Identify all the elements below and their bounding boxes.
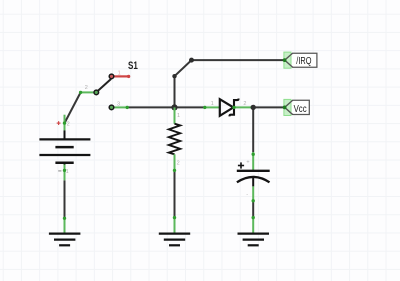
capacitor C1 top plate <box>237 170 270 172</box>
wire capacitor - to right ground <box>252 201 254 216</box>
right ground symbol <box>238 234 270 246</box>
svg-text:1: 1 <box>118 71 121 77</box>
svg-text:3: 3 <box>117 101 120 107</box>
battery BT1 plus mark (red) <box>57 121 61 125</box>
wire battery+ to switch pin 2 (diagonal) <box>65 92 81 123</box>
port Vcc connection dot <box>283 105 287 109</box>
capacitor C1 plus mark <box>238 162 244 168</box>
wire switch pin 3 to Vcc rail (horizontal, through junctions) <box>127 106 205 108</box>
wire Vcc rail junction down to capacitor + <box>252 107 254 152</box>
diode D1 triangle (anode) <box>220 99 234 116</box>
junction node A (main rail / resistor / IRQ branch) <box>171 104 177 110</box>
svg-text:+: + <box>246 160 249 166</box>
junction node B (Vcc rail / capacitor branch) <box>251 105 256 110</box>
switch S1 pin 2 (green) with terminal circle <box>79 91 94 94</box>
diode D1 zener cathode bar with hooks <box>230 99 239 117</box>
switch S1 lever <box>97 79 111 92</box>
port /IRQ flag body <box>285 53 317 67</box>
wire junction to /IRQ port <box>175 60 284 107</box>
resistor R1 pin 2 (green, bottom) <box>173 154 176 172</box>
svg-text:2: 2 <box>67 121 70 127</box>
port /IRQ green pin highlight square <box>284 52 291 68</box>
port /IRQ outline redraw <box>285 53 293 67</box>
svg-text:1: 1 <box>211 101 214 107</box>
capacitor C1 curved bottom plate <box>237 177 270 182</box>
capacitor C1 pin + (green, top) <box>252 152 255 171</box>
switch S1 pin 1 terminal circle <box>109 74 114 79</box>
middle ground symbol <box>159 234 190 246</box>
svg-text:-: - <box>246 192 248 198</box>
resistor R1 zigzag body <box>169 124 180 155</box>
wire resistor bottom to middle ground <box>174 171 176 217</box>
switch S1 pin 3 terminal circle <box>109 105 114 110</box>
right ground pin (green) <box>252 216 255 234</box>
svg-text:1: 1 <box>66 169 69 175</box>
wire battery- to left ground <box>64 180 66 217</box>
svg-text:S1: S1 <box>128 60 138 72</box>
svg-text:2: 2 <box>243 101 246 107</box>
port /IRQ connection dot <box>283 58 287 62</box>
battery BT1 pin 1 (green, bottom) <box>63 163 66 181</box>
battery BT1 pin 2 (green, top) <box>63 115 66 139</box>
wire corner vertex above junction <box>172 74 176 78</box>
switch S1 pin 3 (green) <box>114 106 129 109</box>
battery BT1 minus mark <box>58 170 61 172</box>
capacitor C1 pin - (green, bottom) <box>252 186 255 202</box>
capacitor C1 lead below arc <box>252 178 254 187</box>
left ground symbol <box>49 234 81 246</box>
port Vcc green pin highlight square <box>284 99 291 115</box>
left ground pin (green) <box>63 217 66 234</box>
svg-text:Vcc: Vcc <box>294 104 307 115</box>
battery BT1 plates <box>39 139 90 162</box>
svg-text:1: 1 <box>177 113 180 119</box>
middle ground pin (green) <box>173 216 176 234</box>
svg-text:2: 2 <box>85 85 88 91</box>
switch S1 pin 2 terminal circle <box>94 90 99 95</box>
svg-text:2: 2 <box>177 160 180 166</box>
switch S1 pin 1 stub (red, unconnected) <box>113 75 130 78</box>
wire corner vertex on /IRQ run <box>189 58 194 63</box>
diode D1 pin 2 (green, cathode side) <box>234 106 253 108</box>
resistor R1 pin 1 (green, top) <box>174 107 176 123</box>
diode D1 pin 1 (green, anode side) <box>203 106 220 109</box>
svg-text:/IRQ: /IRQ <box>296 56 311 67</box>
port Vcc flag body <box>285 100 310 114</box>
port Vcc outline redraw <box>285 100 293 114</box>
